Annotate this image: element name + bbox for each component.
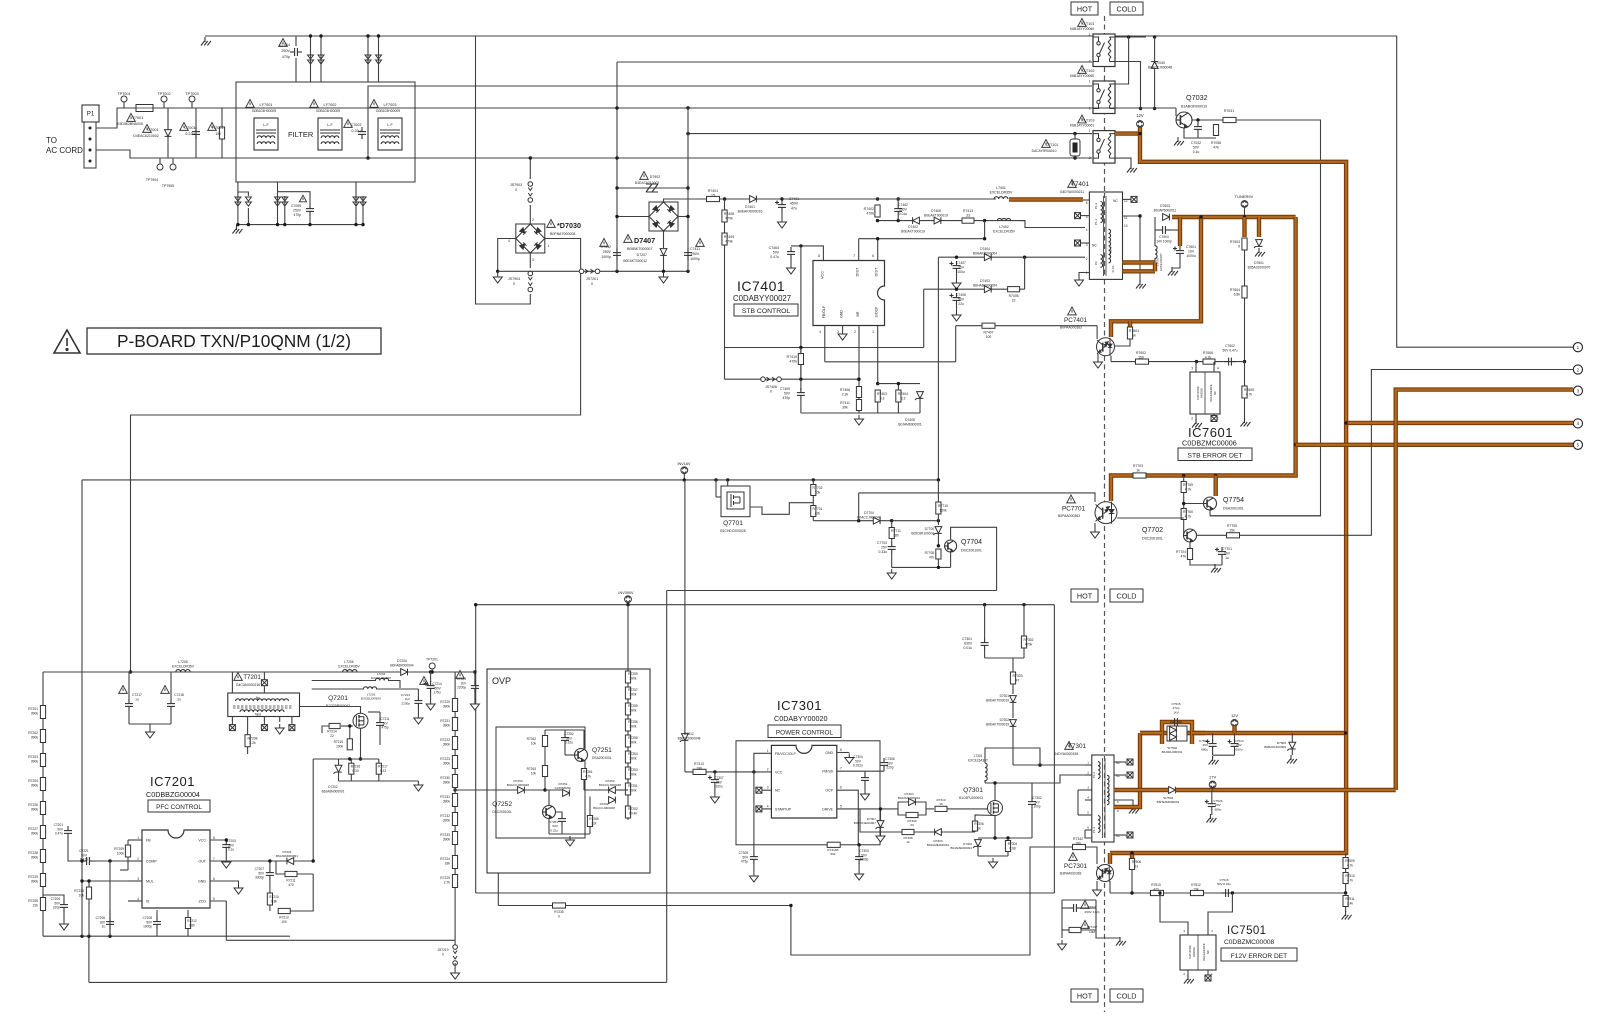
wire: [1012, 703, 1014, 718]
svg-text:0: 0: [770, 390, 772, 394]
svg-text:R7606: R7606: [1203, 351, 1213, 355]
svg-text:4: 4: [508, 239, 510, 243]
wire: [350, 759, 352, 763]
wire pin6 OCP: [837, 790, 859, 845]
junction: [529, 156, 532, 159]
svg-text:390k: 390k: [31, 735, 39, 739]
wire ground bus: [801, 412, 920, 414]
OVP inner outline: [496, 727, 585, 838]
resistor R7226: [40, 802, 45, 815]
wire brown: [1128, 321, 1132, 327]
svg-text:P1-1: P1-1: [1094, 219, 1098, 226]
wire: [812, 480, 814, 485]
svg-text:NC: NC: [775, 789, 781, 793]
chassis ground: [1116, 937, 1126, 946]
wire: [727, 480, 729, 486]
svg-text:1k: 1k: [1135, 864, 1139, 868]
wire aux line: [312, 680, 376, 682]
svg-text:473: 473: [1153, 887, 1159, 891]
wire pin7: [837, 770, 884, 772]
svg-text:Q7301: Q7301: [963, 787, 983, 794]
svg-text:14V 1000p: 14V 1000p: [1156, 239, 1172, 243]
wire: [687, 108, 689, 271]
wire: [790, 259, 792, 264]
svg-text:250V: 250V: [281, 49, 290, 53]
wire brown: [1213, 476, 1217, 497]
wire: [919, 399, 921, 413]
wire FB/OLP: [824, 326, 826, 362]
svg-text:R7702: R7702: [813, 486, 823, 490]
svg-text:R7229: R7229: [28, 875, 38, 879]
svg-text:100: 100: [281, 920, 287, 924]
wire brown to T7401 pin6: [1009, 197, 1083, 201]
junction: [615, 270, 618, 273]
inductor: [381, 136, 399, 138]
svg-text:4: 4: [1087, 796, 1089, 800]
wire: [322, 726, 329, 733]
wire: [956, 325, 1097, 327]
resistor R7601: [1127, 327, 1132, 339]
wire pin8: [837, 752, 850, 754]
wire: [430, 693, 432, 700]
wire: [163, 102, 165, 108]
svg-text:B3PAA000363: B3PAA000363: [1060, 872, 1082, 876]
diode D7303: [935, 829, 942, 836]
wire: [247, 747, 249, 754]
wire: [1085, 774, 1092, 776]
capacitor C7412: [613, 248, 621, 260]
svg-text:TP7905: TP7905: [162, 184, 174, 188]
wire brown: [1257, 217, 1261, 237]
test point TP7003: [189, 96, 195, 102]
junction: [1006, 836, 1009, 839]
resistor R7604: [1242, 286, 1247, 298]
svg-text:HOT: HOT: [1077, 592, 1093, 601]
resistor R7225: [452, 875, 457, 888]
transformer T7401: [1089, 192, 1122, 279]
wire: [278, 192, 311, 204]
junction: [1243, 360, 1246, 363]
pin mark: [261, 680, 267, 686]
svg-text:B0JAP6000011: B0JAP6000011: [1154, 208, 1177, 212]
NC pin (T7401-5): [1075, 213, 1081, 219]
resistor R7602: [1136, 359, 1149, 364]
resistor R7413: [962, 218, 974, 223]
wire divider: [1244, 250, 1246, 362]
svg-text:6.8k: 6.8k: [1234, 293, 1241, 297]
svg-text:4.7k: 4.7k: [1185, 515, 1192, 519]
svg-text:B0ACCJ000048: B0ACCJ000048: [599, 783, 621, 787]
wire: [430, 672, 432, 682]
wire: [1114, 761, 1126, 763]
svg-text:120k: 120k: [939, 509, 947, 513]
svg-text:390k: 390k: [31, 831, 39, 835]
wire to connector 2: [1197, 370, 1574, 536]
svg-text:B0EAKT000012: B0EAKT000012: [623, 259, 647, 263]
wire: [1155, 229, 1158, 231]
capacitor C7251: [558, 814, 566, 826]
svg-text:C0DABYY00027: C0DABYY00027: [733, 294, 791, 303]
svg-text:VCC: VCC: [198, 839, 206, 843]
resistor R7251: [625, 783, 630, 795]
svg-text:R7402: R7402: [864, 207, 874, 211]
wire relay KLT101 coil line: [617, 61, 1092, 63]
svg-text:Q7251: Q7251: [592, 747, 612, 754]
ground: [861, 790, 870, 800]
wire: [127, 857, 129, 870]
wire brown: [1242, 217, 1246, 237]
jumper JS7904: [528, 271, 533, 292]
resistor R7304: [1005, 841, 1010, 852]
junction: [1199, 215, 1202, 218]
resistor R7228: [40, 850, 45, 863]
capacitor C7214: [424, 681, 435, 693]
svg-text:GND: GND: [825, 751, 833, 755]
wire: [1195, 362, 1197, 372]
junction: [897, 382, 900, 385]
resistor R7236: [86, 887, 91, 899]
svg-text:R7605: R7605: [1244, 388, 1254, 392]
photocoupler PC7701: [1095, 502, 1117, 524]
svg-text:0.1u: 0.1u: [1193, 150, 1200, 154]
wire IC7201 pin 6: [210, 880, 226, 882]
junction: [876, 382, 879, 385]
wire: [1074, 156, 1076, 158]
junction: [686, 270, 689, 273]
svg-text:B0EAKR000016: B0EAKR000016: [738, 210, 763, 214]
svg-text:680: 680: [189, 923, 195, 927]
wire brown 17V rail: [1176, 788, 1396, 792]
zener D7405: [917, 392, 924, 399]
wire: [897, 402, 899, 413]
svg-text:680u: 680u: [1201, 747, 1208, 751]
svg-text:R7406: R7406: [840, 388, 850, 392]
svg-text:R7232: R7232: [440, 814, 450, 818]
svg-text:4.7k: 4.7k: [1185, 488, 1192, 492]
wire to T7301 pin1: [1013, 764, 1085, 766]
svg-text:390k: 390k: [443, 742, 451, 746]
wire brown: [1140, 731, 1162, 735]
svg-text:IS: IS: [146, 900, 150, 904]
wire: [82, 880, 142, 882]
svg-text:390k: 390k: [443, 799, 451, 803]
wire: [1115, 158, 1131, 165]
junction: [80, 935, 83, 938]
svg-text:6: 6: [213, 877, 215, 881]
svg-text:B05BKT000007: B05BKT000007: [627, 247, 652, 251]
junction: [713, 770, 716, 773]
wire: [892, 520, 939, 522]
wire: [544, 777, 546, 791]
svg-text:COLD: COLD: [1117, 592, 1137, 601]
wire brown: [1192, 731, 1205, 735]
junction: [366, 156, 369, 159]
wire: [617, 187, 688, 189]
svg-text:470: 470: [288, 883, 294, 887]
svg-text:0.22: 0.22: [380, 769, 386, 773]
wire: [195, 108, 197, 158]
svg-text:0.33u: 0.33u: [879, 550, 888, 554]
svg-text:390k: 390k: [630, 708, 637, 712]
resistor R7408: [722, 210, 727, 222]
wire: [951, 527, 997, 590]
wire: [1007, 852, 1009, 857]
svg-text:STB CONTROL: STB CONTROL: [742, 308, 791, 315]
wire relay KLT103 feed: [688, 133, 1092, 135]
diode D7704: [873, 517, 880, 524]
svg-text:50V: 50V: [784, 392, 791, 396]
bridge rectifier D7407: [649, 202, 678, 231]
svg-text:2: 2: [1086, 257, 1088, 261]
resistor R7760: [1181, 509, 1186, 520]
wire: [1081, 242, 1089, 244]
svg-text:S1: S1: [1107, 793, 1111, 797]
resistor R7405: [1008, 287, 1020, 292]
svg-text:R7226: R7226: [28, 803, 38, 807]
arrows: [308, 55, 314, 64]
svg-text:DIST: DIST: [875, 267, 879, 276]
svg-text:F12V ERROR DET: F12V ERROR DET: [1231, 953, 1287, 960]
wire: [858, 493, 860, 521]
resistor R7703: [1133, 473, 1146, 478]
wire: [187, 910, 189, 918]
svg-text:C7411: C7411: [690, 247, 700, 251]
wire: [231, 672, 233, 693]
inductor L7202: [363, 687, 376, 689]
resistor R7229: [40, 874, 45, 887]
capacitor C7505: [1206, 739, 1217, 751]
svg-text:R7403: R7403: [877, 392, 887, 396]
junction: [225, 838, 228, 841]
wire: [897, 216, 899, 221]
ground: [845, 754, 854, 764]
resistor R7235: [553, 903, 566, 908]
wire: [1184, 503, 1204, 505]
svg-text:NC: NC: [1092, 244, 1097, 248]
wire: [978, 837, 1032, 839]
wire: [210, 881, 239, 884]
svg-text:FB: FB: [146, 839, 151, 843]
svg-text:D7704: D7704: [864, 511, 874, 515]
svg-text:4: 4: [1217, 367, 1219, 371]
wire error amp line: [1110, 892, 1346, 894]
junction: [1182, 502, 1185, 505]
wire: [312, 688, 364, 690]
connector pin 2: [1573, 365, 1582, 374]
svg-text:C7218: C7218: [174, 693, 184, 697]
wire: [1062, 907, 1069, 909]
wire: [813, 520, 891, 522]
resistor R7302: [1021, 636, 1026, 648]
capacitor C7218: [167, 699, 175, 711]
wire: [1211, 791, 1213, 800]
capacitor: [358, 127, 366, 139]
junction: [473, 670, 476, 673]
capacitor C7411: [684, 248, 692, 260]
relay KLT101: [1093, 34, 1115, 67]
wire brown: [1232, 726, 1236, 733]
junction: [80, 879, 83, 882]
junction: [993, 836, 996, 839]
wire: [883, 770, 885, 771]
svg-text:150: 150: [1138, 356, 1144, 360]
svg-text:1k: 1k: [1132, 334, 1136, 338]
wire: [129, 723, 171, 725]
capacitor C7004: [290, 48, 302, 56]
diode D7262: [609, 797, 616, 804]
svg-text:B0ACCJ000048: B0ACCJ000048: [1148, 66, 1172, 70]
junction: [361, 223, 364, 226]
svg-text:0.68: 0.68: [1009, 846, 1015, 850]
svg-text:STARTUP: STARTUP: [775, 807, 792, 811]
svg-text:12V: 12V: [1231, 713, 1238, 718]
svg-text:C7701: C7701: [1222, 547, 1232, 551]
svg-text:C0DBZMC00008: C0DBZMC00008: [1224, 939, 1275, 946]
svg-text:C7003: C7003: [351, 123, 362, 127]
svg-text:R7411: R7411: [840, 401, 850, 405]
junction: [348, 757, 351, 760]
chassis ground: [1184, 975, 1194, 984]
wire: [1085, 764, 1092, 766]
capacitor C7306: [880, 758, 888, 770]
svg-text:390k: 390k: [31, 879, 39, 883]
svg-text:B0JAME000091: B0JAME000091: [950, 846, 972, 850]
svg-text:INV390V: INV390V: [618, 591, 634, 595]
svg-text:220p: 220p: [886, 766, 893, 770]
resistor R7708: [936, 549, 941, 559]
svg-text:MUL: MUL: [146, 880, 154, 884]
svg-text:4.7k: 4.7k: [1347, 863, 1353, 867]
STARTUP pin4 mark: [756, 806, 762, 812]
wire coil supply to Q7032: [1092, 107, 1176, 109]
svg-text:G0B103H00009: G0B103H00009: [252, 109, 276, 113]
wire: [897, 199, 899, 204]
wire: [187, 929, 189, 937]
svg-text:R7407: R7407: [984, 331, 994, 335]
junction: [626, 705, 629, 708]
svg-text:PFC CONTROL: PFC CONTROL: [156, 804, 202, 811]
junction: [615, 106, 618, 109]
wire: [1094, 523, 1096, 528]
chassis ground: [1255, 248, 1265, 257]
svg-text:50V 0.01u: 50V 0.01u: [1217, 882, 1231, 886]
transistor Q7251: [575, 749, 588, 762]
wire: [860, 809, 975, 832]
jumper JS7219: [453, 945, 458, 966]
svg-text:KLT101: KLT101: [1081, 22, 1094, 26]
svg-text:DSC200100L: DSC200100L: [961, 549, 982, 553]
diode D7401: [750, 196, 757, 203]
wire: [750, 503, 813, 515]
wire: [1096, 326, 1098, 339]
wire: [1345, 884, 1347, 894]
wire: [753, 864, 755, 872]
svg-text:C7602: C7602: [1225, 344, 1235, 348]
wire: [128, 900, 142, 902]
svg-text:1u: 1u: [101, 925, 105, 929]
svg-text:1: 1: [767, 749, 769, 753]
svg-text:0.022u: 0.022u: [853, 764, 863, 768]
svg-text:C0DABYY00020: C0DABYY00020: [774, 714, 828, 723]
wire: [667, 590, 997, 592]
bridge rectifier D7030: [516, 224, 545, 253]
wire: [825, 361, 956, 363]
svg-text:EXCELSA06T: EXCELSA06T: [1159, 253, 1163, 271]
svg-text:DSA200100L: DSA200100L: [1223, 507, 1244, 511]
wire: [263, 672, 265, 680]
svg-text:7: 7: [853, 254, 855, 258]
svg-text:470k: 470k: [789, 360, 797, 364]
resistor R7258: [625, 735, 630, 747]
transistor Q7032: [1176, 112, 1192, 128]
wire: [762, 789, 771, 791]
resistor R7509: [1343, 858, 1348, 869]
svg-text:OVP: OVP: [492, 676, 511, 686]
svg-text:COLD: COLD: [1117, 992, 1137, 1001]
svg-text:B05C8R100004: B05C8R100004: [911, 531, 934, 535]
svg-text:R7224: R7224: [440, 857, 450, 861]
wire brown TUNER9V rail: [1172, 215, 1296, 219]
junction: [1195, 360, 1198, 363]
wire: [1187, 970, 1189, 976]
svg-text:3.3: 3.3: [880, 397, 885, 401]
wire: [545, 789, 562, 791]
svg-text:C7004: C7004: [279, 43, 290, 47]
resistor R7702: [811, 485, 816, 496]
svg-text:4: 4: [819, 330, 821, 334]
svg-text:PC7301: PC7301: [1064, 863, 1088, 870]
wire: [1213, 414, 1215, 416]
svg-text:390k: 390k: [630, 692, 637, 696]
arrows: [275, 197, 281, 206]
wire: [127, 840, 129, 845]
ground: [787, 264, 796, 274]
svg-text:10k: 10k: [531, 771, 537, 775]
wire: [880, 809, 882, 821]
wire: [320, 36, 322, 82]
chassis ground (filter top): [201, 37, 211, 46]
svg-text:3: 3: [837, 330, 839, 334]
svg-text:NC: NC: [1113, 199, 1118, 203]
test point TP7904: [157, 164, 163, 170]
svg-text:B0EAKT000019: B0EAKT000019: [924, 213, 948, 217]
resistor R7261: [581, 769, 586, 780]
svg-text:AC CORD: AC CORD: [46, 146, 83, 155]
svg-text:R7313: R7313: [694, 762, 704, 766]
wire: [891, 554, 893, 567]
wire: [549, 833, 590, 835]
wire: [355, 182, 357, 225]
resistor R7031: [1223, 117, 1236, 122]
svg-text:1: 1: [1089, 80, 1091, 84]
ground: [1094, 358, 1103, 368]
svg-text:470p: 470p: [293, 213, 301, 217]
wire: [276, 861, 285, 874]
wire: [1123, 198, 1132, 200]
wire INV390V rail: [476, 604, 1055, 606]
resistor R7513: [1151, 890, 1164, 895]
ceramic resonator CF7101: [1070, 139, 1080, 156]
wire: [1213, 754, 1235, 756]
arrows: [318, 55, 324, 64]
wire: [950, 552, 952, 567]
svg-text:2.7k: 2.7k: [444, 880, 451, 884]
resistor R7221: [452, 718, 457, 731]
capacitor C7462: [894, 204, 902, 216]
svg-text:B09C01EA0007: B09C01EA0007: [854, 821, 876, 825]
photocoupler PC7401: [1097, 338, 1115, 356]
resistor R7210: [267, 893, 272, 905]
